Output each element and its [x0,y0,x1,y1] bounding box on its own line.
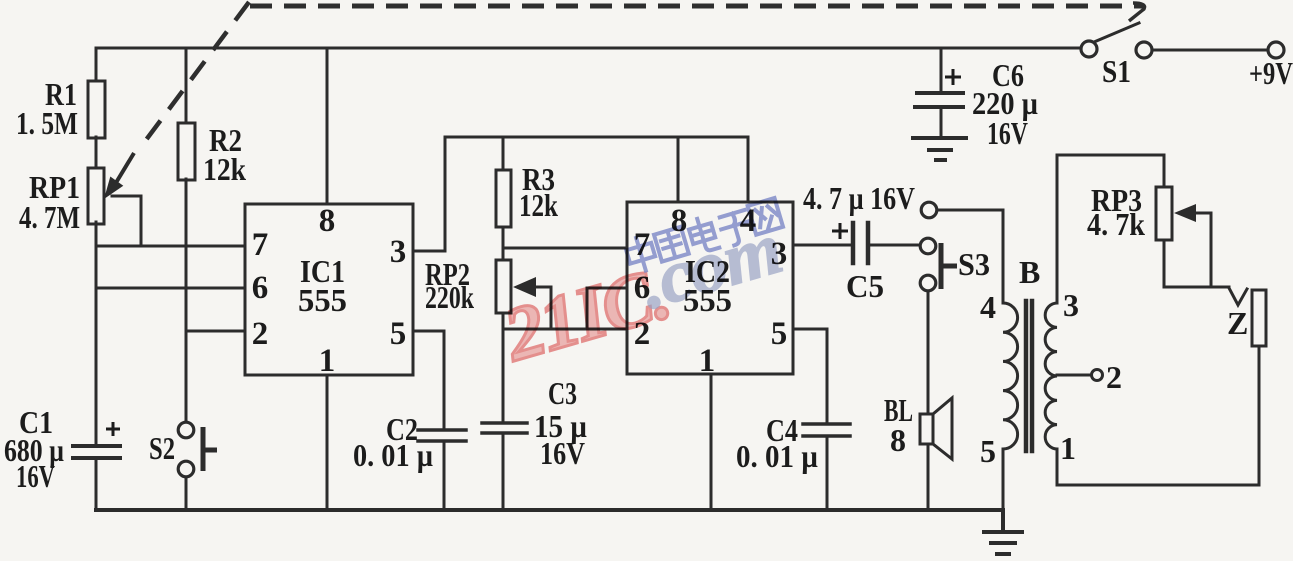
svg-text:3: 3 [1063,287,1079,323]
svg-text:16V: 16V [987,115,1028,151]
speaker BL [920,398,952,459]
svg-text:C5: C5 [846,268,884,304]
wire IC1 pin3 to rail2 [413,137,445,251]
wire R1 to RP1 [95,137,98,168]
node jack mark [1229,288,1247,305]
dashed link line [140,2,1145,148]
svg-text:16V: 16V [16,458,55,494]
resistor R2 [178,123,195,180]
wire R3 bottom to RP2 [502,227,505,260]
switch S3 actuator [941,243,957,289]
wire IC1 pin1 to ground rail [326,375,329,510]
wire IC1 pin2 [186,330,245,333]
capacitor C3 [482,423,527,433]
potentiometer RP1 [88,168,104,224]
wire primary bottom to ground rail [1002,449,1005,510]
wire IC1 pin8 lead [326,48,329,204]
svg-text:4: 4 [980,289,996,325]
wire top +V rail [96,47,1081,50]
wire IC1 pin5 to C2 [413,331,444,430]
capacitor C2 [418,430,466,441]
earphone Z [1252,290,1266,346]
wire IC2 pin5 to C4 [793,329,827,424]
svg-text:12k: 12k [203,151,246,187]
plus sign C6 [945,69,961,85]
wire R2 top lead [185,48,188,123]
svg-text:Z: Z [1227,305,1248,341]
transformer B secondary winding [1045,303,1057,449]
char zhong [624,234,659,274]
svg-text:555: 555 [298,282,347,318]
RP1 wiper arrow [104,153,1196,297]
svg-text:0. 01 µ: 0. 01 µ [353,437,433,473]
svg-text:1: 1 [319,343,336,379]
svg-text:S3: S3 [958,246,990,282]
wire Z to transformer pin1 [1057,346,1259,485]
svg-text:12k: 12k [519,187,558,223]
capacitor C4 [803,424,850,436]
IC1 pin and name labels [252,203,407,379]
wire IC1 pin7 [96,245,245,248]
wire BL to ground rail [927,444,930,510]
dashed link diagonal [140,2,249,148]
resistor R3 [496,170,511,227]
char dian [687,215,720,254]
potentiometer RP3 [1156,187,1172,240]
svg-text:1: 1 [699,343,716,379]
value label R1 [4,53,1293,494]
ground main [984,510,1022,554]
wire RP3 bottom [1164,240,1229,287]
svg-text:6: 6 [252,270,269,306]
svg-text:5: 5 [771,316,788,352]
RP3 wiper arrow [1174,204,1196,222]
svg-text:5: 5 [390,316,407,352]
wire node RP2-IC2 pin2 [503,328,627,331]
svg-text:1. 5M: 1. 5M [16,105,78,141]
capacitor C5 [853,223,868,263]
wire RP1 wiper stub [112,196,141,246]
plus sign C1 [106,69,961,436]
switch S1 contacts [178,41,1284,477]
watermark 21IC [495,196,791,378]
svg-text:8: 8 [890,422,906,458]
transformer B primary winding [1003,303,1018,449]
wire R3 top lead [502,137,505,170]
wire C3 to ground rail [502,433,505,510]
node terminal 2 [1092,370,1103,381]
watermark chinese characters [623,196,784,275]
wire S1 to +9V terminal [1152,49,1268,52]
wire R2 bottom to S2 [185,179,188,423]
node terminal +9V [1268,42,1284,58]
svg-text:2: 2 [252,316,269,352]
plus sign C5 [832,223,848,239]
wire S3 top terminal to transformer [936,210,1003,303]
svg-text:1: 1 [1060,430,1076,466]
char guo [654,227,689,262]
capacitor C6 [915,93,963,107]
svg-text:4. 7k: 4. 7k [1087,206,1145,242]
wire transformer tap pin2 [1057,374,1091,377]
svg-text:2: 2 [1106,359,1122,395]
wire S3 bottom to BL [927,290,930,414]
switch S2 contacts [178,422,194,438]
svg-text:7: 7 [252,227,269,263]
switch S3 contacts [921,202,937,218]
switch S2 actuator [203,243,957,471]
svg-text:0. 01 µ: 0. 01 µ [736,438,818,474]
svg-text:S2: S2 [149,430,175,466]
IC2 pin and name labels [634,203,788,379]
char wang [748,198,783,235]
capacitor C1 [73,446,120,458]
op-amp U1 IC1 555 box [245,204,413,375]
svg-text:8: 8 [319,203,336,239]
wire C6 top lead [940,48,943,93]
wire second rail [445,136,748,139]
RP2 wiper arrow [513,277,536,297]
wire R1 top lead [95,48,98,81]
wire secondary top to RP3 [1057,155,1164,303]
dash hook at S1 [1129,3,1145,21]
wire IC2 pin1 to ground rail [710,374,713,510]
svg-text:220k: 220k [425,279,474,315]
svg-text:5: 5 [980,433,996,469]
wire IC1 pin6 [96,287,245,290]
wire bottom ground rail [96,508,1003,512]
svg-text:4. 7M: 4. 7M [19,199,80,235]
wire C5 to S3 [868,244,920,247]
wire IC2 pin4 lead [747,137,750,202]
wire IC2 pin6 [587,288,627,329]
wire RP2 wiper [534,287,551,329]
wire S2 bottom lead [185,476,188,510]
char zi [718,209,756,247]
svg-text:+9V: +9V [1249,55,1293,91]
wire node R3-RP2 to IC2 pin7 [503,247,627,250]
svg-text:S1: S1 [1102,53,1131,89]
svg-text:16V: 16V [540,435,585,471]
wire RP1 bottom to C1 [95,222,98,446]
potentiometer RP2 [496,260,511,313]
wire C2 to ground rail [443,441,446,510]
wire IC2 pin8 lead [677,137,680,202]
op-amp U2 IC2 555 box [627,202,793,374]
svg-text:4. 7 µ 16V: 4. 7 µ 16V [803,180,915,216]
transformer B core [1026,301,1032,451]
wire RP3 wiper [1194,213,1211,287]
resistor R1 [88,81,105,138]
wire RP2 bottom to C3 [502,313,505,423]
wire C6 to ground [940,107,943,137]
wire C1 to ground rail [95,458,98,510]
switch S1 lever [1094,23,1139,42]
wire C4 to ground rail [826,436,829,510]
svg-text:3: 3 [390,234,407,270]
ground below C6 [913,138,966,160]
wire IC2 pin3 to C5 [793,244,851,247]
svg-text:C3: C3 [548,375,577,411]
svg-text:B: B [1019,254,1040,290]
